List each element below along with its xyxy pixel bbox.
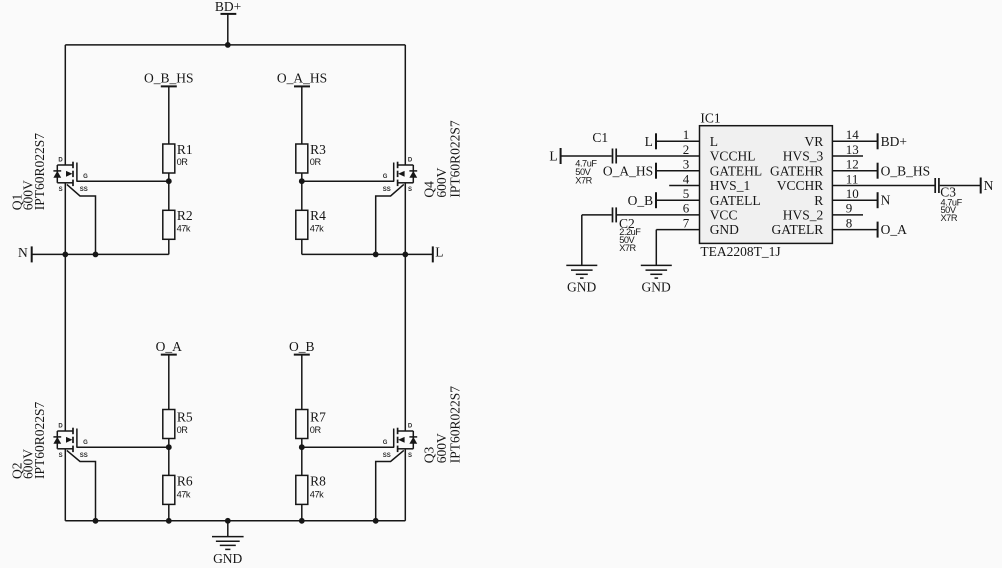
junction bbox=[93, 252, 99, 258]
ground GND (C2) bbox=[566, 265, 597, 278]
junction bbox=[93, 518, 99, 524]
svg-text:R6: R6 bbox=[177, 474, 193, 489]
wire C2 left bbox=[582, 214, 612, 216]
IC1 pin 3 (GATEHL) bbox=[656, 157, 762, 179]
svg-text:R3: R3 bbox=[310, 142, 326, 157]
IC1 pin 13 (HVS_3) bbox=[783, 142, 863, 164]
terminal O_B bbox=[294, 354, 310, 356]
wire O_A_HS to R3 bbox=[301, 86, 303, 144]
resistor R5 bbox=[163, 410, 175, 439]
svg-text:S: S bbox=[408, 453, 412, 459]
svg-text:L: L bbox=[645, 134, 653, 149]
svg-text:3: 3 bbox=[683, 157, 690, 172]
resistor R2 bbox=[163, 210, 175, 239]
svg-text:R2: R2 bbox=[177, 208, 193, 223]
C2 value 2.2uF 50V X7R bbox=[619, 227, 641, 253]
wire top rail BD+ bbox=[65, 44, 405, 46]
IC1 pin 6 (VCC) bbox=[617, 201, 738, 223]
svg-text:6: 6 bbox=[683, 201, 690, 216]
svg-text:G: G bbox=[83, 174, 88, 180]
label Q4 designation bbox=[422, 120, 463, 198]
terminal O_A bbox=[161, 354, 177, 356]
svg-text:8: 8 bbox=[846, 215, 853, 230]
svg-text:47k: 47k bbox=[177, 489, 191, 499]
terminal O_B_HS bbox=[161, 85, 177, 87]
svg-text:D: D bbox=[58, 158, 63, 164]
svg-text:VCCHL: VCCHL bbox=[710, 149, 756, 164]
resistor R6 bbox=[163, 475, 175, 504]
svg-text:10: 10 bbox=[846, 186, 859, 201]
svg-text:GATEHR: GATEHR bbox=[770, 163, 823, 178]
op-amp/controller IC1 TEA2208T_1J body bbox=[700, 126, 833, 244]
terminal BD+ (pin 14) bbox=[877, 133, 879, 149]
wire R8 to GND rail bbox=[301, 504, 303, 520]
IC1 pin 12 (GATEHR) bbox=[770, 157, 878, 179]
svg-text:VR: VR bbox=[805, 134, 824, 149]
wire Q4 SS to node L bbox=[376, 184, 404, 254]
svg-text:R7: R7 bbox=[310, 409, 326, 424]
wire Q3 gate to R7/R8 node bbox=[302, 446, 394, 448]
svg-text:O_A_HS: O_A_HS bbox=[277, 71, 327, 86]
wire node L rail bbox=[302, 253, 433, 255]
svg-text:GND: GND bbox=[710, 222, 739, 237]
ground GND (pin 7) bbox=[641, 265, 672, 278]
wire bottom GND rail bbox=[65, 520, 405, 522]
wire pin 7 to GND bbox=[655, 230, 657, 266]
svg-text:X7R: X7R bbox=[941, 213, 958, 223]
wire Q1 gate to R1/R2 node bbox=[76, 180, 168, 182]
terminal L bbox=[432, 246, 434, 262]
svg-text:13: 13 bbox=[846, 142, 859, 157]
junction bbox=[62, 252, 68, 258]
junction bbox=[299, 444, 305, 450]
wire Q4 drain bbox=[404, 45, 406, 165]
wire Q1 SS to node N bbox=[67, 184, 96, 254]
svg-text:S: S bbox=[408, 187, 412, 193]
wire R7 to R8 bbox=[301, 439, 303, 476]
resistor R1 bbox=[163, 144, 175, 173]
junction bbox=[299, 518, 305, 524]
svg-text:BD+: BD+ bbox=[215, 0, 241, 14]
wire O_A to R5 bbox=[168, 355, 170, 410]
wire C2 to GND bbox=[581, 215, 583, 266]
resistor R3 bbox=[296, 144, 308, 173]
IC1 pin 14 (VR) bbox=[805, 127, 878, 149]
IC1 pin 10 (R) bbox=[814, 186, 877, 208]
junction bbox=[373, 518, 379, 524]
svg-text:R1: R1 bbox=[177, 142, 193, 157]
svg-text:N: N bbox=[18, 245, 28, 260]
svg-text:O_B: O_B bbox=[628, 193, 654, 208]
wire R3 to R4 bbox=[301, 173, 303, 210]
svg-text:L: L bbox=[549, 148, 557, 163]
svg-text:0R: 0R bbox=[177, 157, 189, 167]
svg-text:9: 9 bbox=[846, 201, 853, 216]
svg-text:G: G bbox=[383, 440, 388, 446]
terminal O_B (pin 5) bbox=[655, 192, 657, 208]
svg-text:IPT60R022S7: IPT60R022S7 bbox=[32, 133, 47, 211]
wire Q1 drain bbox=[64, 45, 66, 165]
svg-text:GATELL: GATELL bbox=[710, 193, 761, 208]
IC1 pin 11 (VCCHR) bbox=[777, 171, 935, 193]
svg-text:C1: C1 bbox=[592, 130, 608, 145]
svg-text:4: 4 bbox=[683, 171, 690, 186]
junction bbox=[166, 178, 172, 184]
junction bbox=[373, 252, 379, 258]
wire Q4 gate to R3/R4 node bbox=[302, 180, 394, 182]
terminal N bbox=[31, 246, 33, 262]
svg-text:VCC: VCC bbox=[710, 208, 738, 223]
IC1 pin 7 (GND) bbox=[656, 215, 739, 237]
transistor Q2 bbox=[53, 428, 77, 452]
svg-text:GATEHL: GATEHL bbox=[710, 163, 763, 178]
wire R6 to GND rail bbox=[168, 504, 170, 520]
svg-text:VCCHR: VCCHR bbox=[777, 178, 824, 193]
svg-text:11: 11 bbox=[846, 171, 859, 186]
svg-text:IPT60R022S7: IPT60R022S7 bbox=[32, 401, 47, 479]
IC1 pin 4 (HVS_1) bbox=[669, 171, 750, 193]
svg-text:R8: R8 bbox=[310, 474, 326, 489]
svg-text:R4: R4 bbox=[310, 208, 326, 223]
wire O_B to R7 bbox=[301, 355, 303, 410]
svg-text:GND: GND bbox=[213, 551, 242, 566]
wire O_B_HS to R1 bbox=[168, 86, 170, 144]
wire C3 to N terminal bbox=[940, 185, 981, 187]
junction bbox=[166, 444, 172, 450]
svg-text:D: D bbox=[408, 424, 413, 430]
svg-text:S: S bbox=[59, 187, 63, 193]
label Q1 designation bbox=[9, 133, 47, 211]
IC1 pin 1 (L) bbox=[656, 127, 718, 149]
svg-text:HVS_3: HVS_3 bbox=[783, 149, 824, 164]
svg-text:GATELR: GATELR bbox=[772, 222, 824, 237]
terminal O_B_HS (pin 12) bbox=[877, 163, 879, 179]
label Q2 designation bbox=[9, 401, 47, 479]
svg-text:R: R bbox=[814, 193, 823, 208]
label Q3 designation bbox=[422, 386, 463, 464]
capacitor C3 bbox=[935, 178, 939, 193]
terminal N (C3) bbox=[980, 178, 982, 194]
svg-text:O_B_HS: O_B_HS bbox=[881, 163, 931, 178]
svg-text:SS: SS bbox=[80, 187, 88, 193]
svg-text:G: G bbox=[83, 440, 88, 446]
svg-text:R5: R5 bbox=[177, 409, 193, 424]
svg-text:1: 1 bbox=[683, 127, 690, 142]
svg-text:0R: 0R bbox=[310, 157, 322, 167]
svg-text:G: G bbox=[383, 174, 388, 180]
transistor Q4 bbox=[394, 162, 418, 186]
terminal O_A_HS (pin 3) bbox=[655, 163, 657, 179]
svg-text:0R: 0R bbox=[177, 425, 189, 435]
wire Q3 source to GND rail bbox=[404, 449, 406, 521]
svg-text:D: D bbox=[408, 158, 413, 164]
svg-text:D: D bbox=[58, 424, 63, 430]
svg-text:GND: GND bbox=[641, 280, 670, 295]
terminal O_A_HS bbox=[294, 85, 310, 87]
svg-text:7: 7 bbox=[683, 215, 690, 230]
wire Q4 source to Q3 drain (node L) bbox=[404, 183, 406, 431]
svg-text:HVS_2: HVS_2 bbox=[783, 208, 824, 223]
svg-text:IPT60R022S7: IPT60R022S7 bbox=[448, 120, 463, 198]
terminal BD+ bbox=[221, 13, 237, 15]
svg-text:GND: GND bbox=[567, 280, 596, 295]
svg-text:SS: SS bbox=[383, 187, 391, 193]
svg-text:SS: SS bbox=[383, 453, 391, 459]
svg-text:47k: 47k bbox=[310, 489, 324, 499]
wire R2 to node N rail bbox=[168, 239, 170, 254]
capacitor C1 bbox=[613, 149, 617, 164]
wire Q2 gate to R5/R6 node bbox=[76, 446, 168, 448]
terminal N (pin 10) bbox=[877, 192, 879, 208]
svg-text:HVS_1: HVS_1 bbox=[710, 178, 751, 193]
junction bbox=[166, 518, 172, 524]
C3 value 4.7uF 50V X7R bbox=[941, 197, 963, 222]
wire R5 to R6 bbox=[168, 439, 170, 476]
svg-text:S: S bbox=[59, 453, 63, 459]
junction bbox=[225, 42, 231, 48]
wire R4 to node L rail bbox=[301, 239, 303, 254]
svg-text:2: 2 bbox=[683, 142, 690, 157]
svg-text:O_A: O_A bbox=[881, 222, 907, 237]
svg-text:N: N bbox=[984, 178, 994, 193]
transistor Q3 bbox=[394, 428, 418, 452]
svg-text:L: L bbox=[435, 245, 443, 260]
svg-text:5: 5 bbox=[683, 186, 690, 201]
C1 value 4.7uF 50V X7R bbox=[575, 158, 597, 185]
terminal L (pin 1) bbox=[655, 133, 657, 149]
svg-text:O_B_HS: O_B_HS bbox=[144, 71, 194, 86]
IC1 pin 8 (GATELR) bbox=[772, 215, 878, 237]
junction bbox=[225, 518, 231, 524]
wire Q2 SS to GND rail bbox=[67, 450, 96, 520]
svg-text:N: N bbox=[881, 192, 891, 207]
svg-text:47k: 47k bbox=[177, 223, 191, 233]
wire Q3 SS to GND rail bbox=[376, 450, 404, 520]
wire Q1 source to Q2 drain (node N) bbox=[64, 183, 66, 431]
svg-text:47k: 47k bbox=[310, 223, 324, 233]
terminal L (C1) bbox=[560, 148, 562, 164]
wire node N rail bbox=[32, 253, 169, 255]
svg-text:IPT60R022S7: IPT60R022S7 bbox=[448, 386, 463, 464]
svg-text:O_A_HS: O_A_HS bbox=[603, 163, 653, 178]
wire R1 to R2 bbox=[168, 173, 170, 210]
svg-text:O_B: O_B bbox=[289, 339, 315, 354]
svg-text:X7R: X7R bbox=[619, 243, 636, 253]
IC1 pin 2 (VCCHL) bbox=[617, 142, 756, 164]
wire Q2 source to GND rail bbox=[64, 449, 66, 521]
ground GND (bridge) bbox=[212, 521, 244, 550]
wire L terminal to C1 bbox=[561, 155, 612, 157]
svg-text:0R: 0R bbox=[310, 425, 322, 435]
svg-text:TEA2208T_1J: TEA2208T_1J bbox=[700, 244, 780, 259]
capacitor C2 bbox=[613, 207, 617, 222]
svg-text:IC1: IC1 bbox=[700, 110, 720, 125]
svg-text:SS: SS bbox=[80, 453, 88, 459]
IC1 pin 5 (GATELL) bbox=[656, 186, 761, 208]
junction bbox=[299, 178, 305, 184]
transistor Q1 bbox=[53, 162, 77, 186]
svg-text:L: L bbox=[710, 134, 718, 149]
svg-text:14: 14 bbox=[846, 127, 860, 142]
terminal O_A (pin 8) bbox=[877, 222, 879, 238]
resistor R7 bbox=[296, 410, 308, 439]
junction bbox=[402, 252, 408, 258]
svg-text:12: 12 bbox=[846, 157, 859, 172]
svg-text:BD+: BD+ bbox=[881, 134, 907, 149]
resistor R4 bbox=[296, 210, 308, 239]
resistor R8 bbox=[296, 475, 308, 504]
svg-text:X7R: X7R bbox=[575, 176, 592, 186]
svg-text:O_A: O_A bbox=[156, 339, 182, 354]
IC1 pin 9 (HVS_2) bbox=[783, 201, 863, 223]
wire BD+ to top rail bbox=[227, 14, 229, 45]
